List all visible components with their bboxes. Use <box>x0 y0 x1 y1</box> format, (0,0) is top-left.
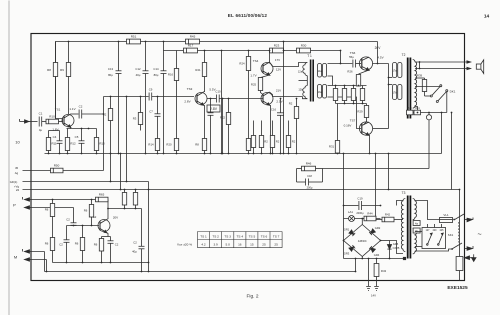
svg-text:26V: 26V <box>375 46 382 50</box>
resistor R18b <box>246 139 250 151</box>
selector arm a <box>427 233 433 245</box>
resistor R14b <box>103 97 113 154</box>
transistor TS4 <box>250 58 281 78</box>
svg-text:Vce ±20 %: Vce ±20 % <box>177 243 192 247</box>
wire TS4 base <box>261 98 264 100</box>
svg-text:40μ: 40μ <box>132 250 137 254</box>
wire crosser x110 <box>110 154 112 183</box>
svg-text:C5: C5 <box>75 135 79 139</box>
svg-text:GR5: GR5 <box>393 242 399 246</box>
svg-text:C9: C9 <box>149 88 153 92</box>
svg-text:14: 14 <box>484 14 490 20</box>
wire bottom common rail <box>45 271 356 273</box>
resistor R12 <box>65 129 76 154</box>
resistor R45 <box>186 35 200 44</box>
capacitor C4 <box>53 131 63 154</box>
resistor R26 <box>347 70 369 87</box>
transistor TS6 power <box>350 46 384 70</box>
resistor R27a <box>270 121 279 154</box>
wire T2 primary taps <box>388 77 393 86</box>
svg-text:R50: R50 <box>54 164 60 168</box>
ground terminal b <box>374 287 379 291</box>
resistor R14 <box>148 139 159 154</box>
svg-text:R24: R24 <box>239 62 245 66</box>
resistor R43 <box>374 259 386 287</box>
resistor R28a <box>286 121 295 154</box>
svg-text:GR3: GR3 <box>344 252 350 256</box>
resistor R18 <box>60 42 71 115</box>
wire vertical x126 <box>126 97 128 154</box>
table header row <box>200 234 279 238</box>
wire TS2 emitter split <box>102 233 111 237</box>
svg-text:R8: R8 <box>47 68 51 72</box>
svg-text:17V: 17V <box>275 58 280 62</box>
resistor R65 <box>96 193 109 202</box>
capacitor C2 <box>79 105 104 119</box>
wire vertical c12 branch <box>145 42 147 71</box>
svg-text:2000μ: 2000μ <box>356 211 364 215</box>
svg-text:C14: C14 <box>153 67 159 71</box>
wire drop x375 <box>375 154 377 220</box>
svg-text:TS4: TS4 <box>253 59 259 63</box>
wire T2 bottom tap <box>415 107 418 113</box>
transformer T1 secondary 14a <box>318 64 327 78</box>
wire T3 sec tap bottom <box>390 241 404 254</box>
svg-text:T 1: T 1 <box>307 54 312 58</box>
wire emitter row <box>67 128 97 130</box>
wire R11 C4 top <box>49 130 60 132</box>
node bottom rail <box>46 271 143 273</box>
svg-text:C1: C1 <box>39 112 43 116</box>
wire vertical x388b <box>388 153 390 191</box>
wire T3 prim bottom to switch <box>415 249 452 251</box>
capacitor C17 <box>349 55 361 68</box>
terminal M wire 2 <box>25 258 47 261</box>
jack bus <box>417 112 443 120</box>
svg-text:TS3: TS3 <box>187 87 193 91</box>
boxed label 2.8V <box>207 105 220 112</box>
capacitor C19 <box>344 197 381 216</box>
svg-text:C13: C13 <box>108 67 114 71</box>
svg-text:R11: R11 <box>51 142 56 146</box>
transformer T2 primary winding 17b <box>393 85 402 100</box>
wire lamp row <box>344 218 381 220</box>
title text <box>228 13 268 18</box>
node bottom resistors <box>253 153 290 155</box>
svg-text:C2: C2 <box>79 105 83 109</box>
wire M drop corner <box>44 252 46 272</box>
capacitor C18 <box>297 169 323 190</box>
capacitor C13 <box>108 67 122 154</box>
node x451 top <box>451 112 453 114</box>
wire bias row bottom <box>336 103 367 105</box>
wire vertical c13 branch <box>118 42 120 71</box>
svg-text:13a: 13a <box>318 91 323 94</box>
svg-text:DK1: DK1 <box>450 90 456 94</box>
wire crosser x126 <box>126 154 128 183</box>
svg-text:R23: R23 <box>274 44 280 48</box>
svg-text:R6: R6 <box>45 208 49 212</box>
resistor R64 <box>84 199 94 227</box>
wire TS3 output <box>207 98 216 100</box>
svg-text:R9: R9 <box>60 68 64 72</box>
svg-text:2.8V: 2.8V <box>210 107 218 111</box>
resistor R24 <box>239 51 250 154</box>
node TS3 net <box>68 41 250 100</box>
svg-text:10: 10 <box>15 140 20 145</box>
wire speaker line 1 <box>415 61 467 63</box>
capacitor C14 <box>153 51 166 154</box>
svg-text:12b: 12b <box>298 88 303 92</box>
resistor R40 <box>407 107 414 115</box>
earth terminal wire <box>465 254 477 261</box>
bias resistor bank R27 <box>333 86 337 104</box>
svg-text:R46: R46 <box>306 162 312 166</box>
wire vertical x283 <box>283 41 285 155</box>
svg-text:M: M <box>14 255 17 260</box>
wire TS3 base feed <box>104 96 149 98</box>
wire TS1 emitter <box>70 127 72 129</box>
svg-text:GR1: GR1 <box>344 228 350 232</box>
capacitor C23 <box>108 237 119 263</box>
wire T1 tap4 to TS7 base <box>328 97 362 129</box>
selector arm b <box>438 233 444 245</box>
svg-text:14a: 14a <box>318 70 323 73</box>
label battery <box>371 294 376 298</box>
transformer T3 primary winding upper <box>413 199 417 220</box>
terminal P wire 2 <box>25 206 74 209</box>
table value row <box>177 243 278 247</box>
svg-text:TS 1: TS 1 <box>200 234 207 238</box>
svg-text:R2: R2 <box>289 102 293 106</box>
wire TS2 collector <box>107 200 109 220</box>
svg-text:R6: R6 <box>45 242 49 246</box>
svg-text:R17: R17 <box>188 44 194 48</box>
svg-text:45: 45 <box>15 166 19 170</box>
transformer T2 secondary winding <box>413 60 417 109</box>
resistor R21 TS3 collector load <box>195 51 206 93</box>
bridge labels <box>344 226 381 257</box>
svg-text:R51: R51 <box>131 35 137 39</box>
diode GR3 <box>349 245 355 251</box>
svg-text:R29: R29 <box>357 110 363 114</box>
wire TS5 emitter <box>270 105 271 154</box>
svg-text:15: 15 <box>250 243 254 247</box>
fuse VL1 <box>440 213 453 223</box>
wire drop x148 <box>148 182 150 272</box>
terminal P wire 1 <box>13 197 95 208</box>
resistor R22 branch <box>220 99 231 154</box>
wire T3 prim top to fuse <box>415 201 440 220</box>
svg-text:C19: C19 <box>357 197 363 201</box>
transformer T2 label <box>402 53 406 57</box>
svg-text:R65: R65 <box>99 193 105 197</box>
wire rail 22 <box>16 188 460 192</box>
transistor TS1 <box>52 107 75 132</box>
resistor R50 <box>51 164 64 173</box>
capacitor C7 branch <box>149 97 160 139</box>
wire drop x451 <box>451 113 453 190</box>
switch link dashed <box>457 222 459 243</box>
svg-text:C4: C4 <box>53 135 57 139</box>
transformer T1 label <box>307 54 312 58</box>
svg-text:200μ: 200μ <box>307 186 313 190</box>
resistor R23 <box>270 44 284 53</box>
transformer T2 primary winding 17a <box>393 63 402 78</box>
wire T1 tap3 bias row <box>328 85 367 87</box>
node x375 <box>375 153 377 155</box>
svg-text:R2: R2 <box>264 140 268 144</box>
svg-text:1.7V: 1.7V <box>250 74 256 78</box>
transformer T1 primary winding 12b <box>298 86 307 99</box>
wire headphone row <box>407 112 447 114</box>
svg-text:C2: C2 <box>115 243 119 247</box>
transformer T2 core <box>407 58 412 119</box>
wire rail GD <box>10 180 149 189</box>
resistor R44 <box>364 212 376 221</box>
capacitor C21 coupling <box>66 208 76 226</box>
resistor R23b emitter <box>195 139 206 151</box>
resistor R61 <box>45 238 55 263</box>
supply rail 2 <box>56 42 378 122</box>
svg-text:TS 6: TS 6 <box>261 234 268 238</box>
svg-text:C16: C16 <box>271 108 277 112</box>
switch DK1 contact b <box>436 90 455 113</box>
svg-text:R2: R2 <box>276 140 280 144</box>
wire crosser x120 <box>120 153 122 191</box>
capacitor C16 <box>271 99 284 154</box>
svg-text:GR2: GR2 <box>375 226 381 230</box>
svg-text:17b: 17b <box>393 92 398 95</box>
wire T1 tap2 <box>328 76 333 86</box>
svg-text:4.2: 4.2 <box>201 243 206 247</box>
svg-text:R39: R39 <box>417 74 423 78</box>
wire vertical x222 <box>222 99 224 154</box>
resistor R63 <box>94 237 104 263</box>
resistor R42 <box>376 213 395 222</box>
svg-text:4μ: 4μ <box>39 128 43 132</box>
transformer T1 secondary 14b <box>318 85 327 99</box>
wire TS7 emitter <box>368 135 371 154</box>
svg-text:R20: R20 <box>166 143 172 147</box>
wire rail to common <box>355 258 357 273</box>
transformer T3 primary winding lower <box>413 228 417 253</box>
wire T3 taps to selector <box>415 232 422 247</box>
wire drop x441 <box>441 113 443 154</box>
wire M2 drop <box>46 260 48 272</box>
svg-text:R45: R45 <box>190 35 196 39</box>
diode GR4 <box>369 246 375 252</box>
capacitor C10 <box>215 90 262 103</box>
svg-text:GR4: GR4 <box>374 253 380 257</box>
page edge line <box>8 1 10 315</box>
capacitor C24 output <box>132 209 144 272</box>
svg-text:3.9: 3.9 <box>213 243 218 247</box>
capacitor C9 <box>149 88 194 101</box>
drawing number EXE1525 <box>447 285 468 291</box>
node bias <box>335 85 364 105</box>
tap label 4a <box>413 221 420 226</box>
svg-text:T2: T2 <box>402 53 406 57</box>
wire T3 sec tap mid <box>394 219 403 221</box>
wire TS2 base row <box>67 225 100 227</box>
tap label 4b <box>413 228 420 233</box>
terminal M wire 1 <box>14 249 45 260</box>
wire vertical x221 <box>221 50 223 155</box>
svg-text:R21: R21 <box>195 68 201 72</box>
wire speaker line 2 <box>415 68 467 70</box>
wire stage bottom <box>53 262 149 264</box>
svg-text:C10: C10 <box>215 90 221 94</box>
transistor TS7 power <box>344 119 373 136</box>
svg-text:Ag: Ag <box>15 171 19 175</box>
figure caption <box>247 294 259 300</box>
svg-text:R30: R30 <box>301 44 307 48</box>
svg-text:17a: 17a <box>393 70 398 73</box>
svg-text:TS7: TS7 <box>350 119 356 123</box>
svg-text:R43: R43 <box>381 269 387 273</box>
node x148 <box>148 189 150 273</box>
resistor R66 <box>122 189 126 209</box>
svg-text:R25: R25 <box>251 83 257 87</box>
svg-text:P: P <box>13 203 16 208</box>
resistor R11 <box>46 131 57 154</box>
svg-text:EXE1525: EXE1525 <box>447 285 468 291</box>
transformer T3 secondary winding <box>401 199 405 252</box>
svg-text:C2: C2 <box>133 241 137 245</box>
wire T2 primary bus <box>388 64 390 129</box>
wire TS4 collector <box>269 51 271 63</box>
svg-text:20V: 20V <box>113 216 118 220</box>
bridge rectifier frame <box>344 225 381 257</box>
transformer T3 core <box>407 196 412 259</box>
resistor R29a <box>289 99 299 154</box>
svg-text:0.16V: 0.16V <box>344 124 352 128</box>
switch SK1 contact bottom <box>451 243 462 250</box>
svg-text:25: 25 <box>262 243 266 247</box>
thermistor box right <box>456 190 463 281</box>
svg-text:4.5V: 4.5V <box>377 56 383 60</box>
capacitor C5 <box>75 129 85 154</box>
svg-text:C12: C12 <box>135 67 141 71</box>
mains arrow top <box>465 218 474 222</box>
diode GR2 <box>369 229 375 235</box>
svg-text:21V: 21V <box>276 89 281 93</box>
svg-text:R42: R42 <box>385 213 391 217</box>
wire rail Ag left <box>15 166 104 175</box>
node rail right end <box>459 189 461 191</box>
svg-text:40μ: 40μ <box>136 73 141 77</box>
svg-text:R6: R6 <box>84 209 88 213</box>
svg-text:R10: R10 <box>49 115 55 119</box>
ground terminal a <box>366 287 371 291</box>
svg-text:R16: R16 <box>168 73 174 77</box>
svg-text:TS 5: TS 5 <box>249 234 256 238</box>
svg-text:25: 25 <box>274 243 278 247</box>
wire bridge top feed <box>361 219 363 225</box>
svg-text:VL1: VL1 <box>443 213 449 217</box>
resistor R62 <box>75 226 85 263</box>
transistor TS3 <box>184 87 215 105</box>
page number <box>484 14 490 20</box>
svg-text:R2: R2 <box>292 140 296 144</box>
wire supply drop x343 <box>343 154 345 259</box>
label 10 <box>15 140 20 145</box>
svg-text:R44: R44 <box>367 212 373 216</box>
svg-text:C18: C18 <box>307 174 312 178</box>
svg-text:R40: R40 <box>407 107 412 110</box>
svg-text:R31: R31 <box>329 145 335 149</box>
svg-text:2.5V: 2.5V <box>276 100 282 104</box>
svg-text:TS6: TS6 <box>350 51 356 55</box>
diode GR1 <box>349 230 355 236</box>
outer schematic frame <box>31 34 465 281</box>
wire T1 tap top to TS6 base <box>328 63 353 65</box>
transformer T1 core <box>310 60 314 102</box>
speaker symbol <box>476 60 483 74</box>
svg-text:C7: C7 <box>149 110 153 114</box>
svg-text:R14: R14 <box>148 143 154 147</box>
node emitter row <box>81 128 90 130</box>
capacitor C1 <box>39 112 46 133</box>
resistor R17 <box>184 44 198 53</box>
node stage bottom <box>66 262 112 264</box>
svg-text:2.8V: 2.8V <box>184 100 190 104</box>
svg-text:12a: 12a <box>298 70 303 74</box>
resistor R30 <box>297 44 311 53</box>
resistor R3 mid <box>133 97 143 131</box>
wire feedback drop x428 <box>428 120 430 169</box>
svg-text:TS 4: TS 4 <box>237 234 244 238</box>
mains arrow bottom <box>465 246 474 250</box>
bias resistor bank R28 <box>342 86 346 104</box>
input arrow terminal <box>20 119 32 123</box>
svg-text:TS 2: TS 2 <box>212 234 219 238</box>
wire bridge right ext <box>343 240 390 242</box>
input wire <box>32 121 38 123</box>
resistor R46 <box>297 162 323 171</box>
node mid <box>269 50 298 100</box>
transformer T3 label <box>402 191 406 195</box>
resistor R29 <box>357 104 368 126</box>
node TS2 base <box>52 199 84 227</box>
wire TS3 emitter <box>204 105 205 154</box>
wire rail3 drop <box>340 50 342 65</box>
speaker arrows <box>467 60 473 70</box>
resistor R10 <box>46 115 63 124</box>
node lamp row <box>343 205 382 220</box>
svg-text:T3: T3 <box>402 191 406 195</box>
wire battery minus <box>368 259 370 287</box>
svg-text:C2: C2 <box>59 243 63 247</box>
svg-text:R12: R12 <box>70 142 76 146</box>
label SK1 <box>448 233 454 237</box>
resistor R51 <box>127 35 141 44</box>
svg-text:14V: 14V <box>371 294 376 298</box>
node rail junctions <box>48 153 371 155</box>
diode GR5 <box>387 241 399 259</box>
bias resistor bank R32 <box>351 86 355 104</box>
wire feedback rail y168 <box>323 168 430 170</box>
resistor R20 <box>259 121 268 154</box>
label mains ac <box>477 232 481 239</box>
resistor R41 <box>414 107 421 115</box>
svg-text:22: 22 <box>16 188 20 192</box>
resistor R31 <box>329 104 340 154</box>
svg-text:C2: C2 <box>66 218 70 222</box>
svg-text:SK1: SK1 <box>448 233 454 237</box>
transistor TS5 <box>261 89 283 106</box>
